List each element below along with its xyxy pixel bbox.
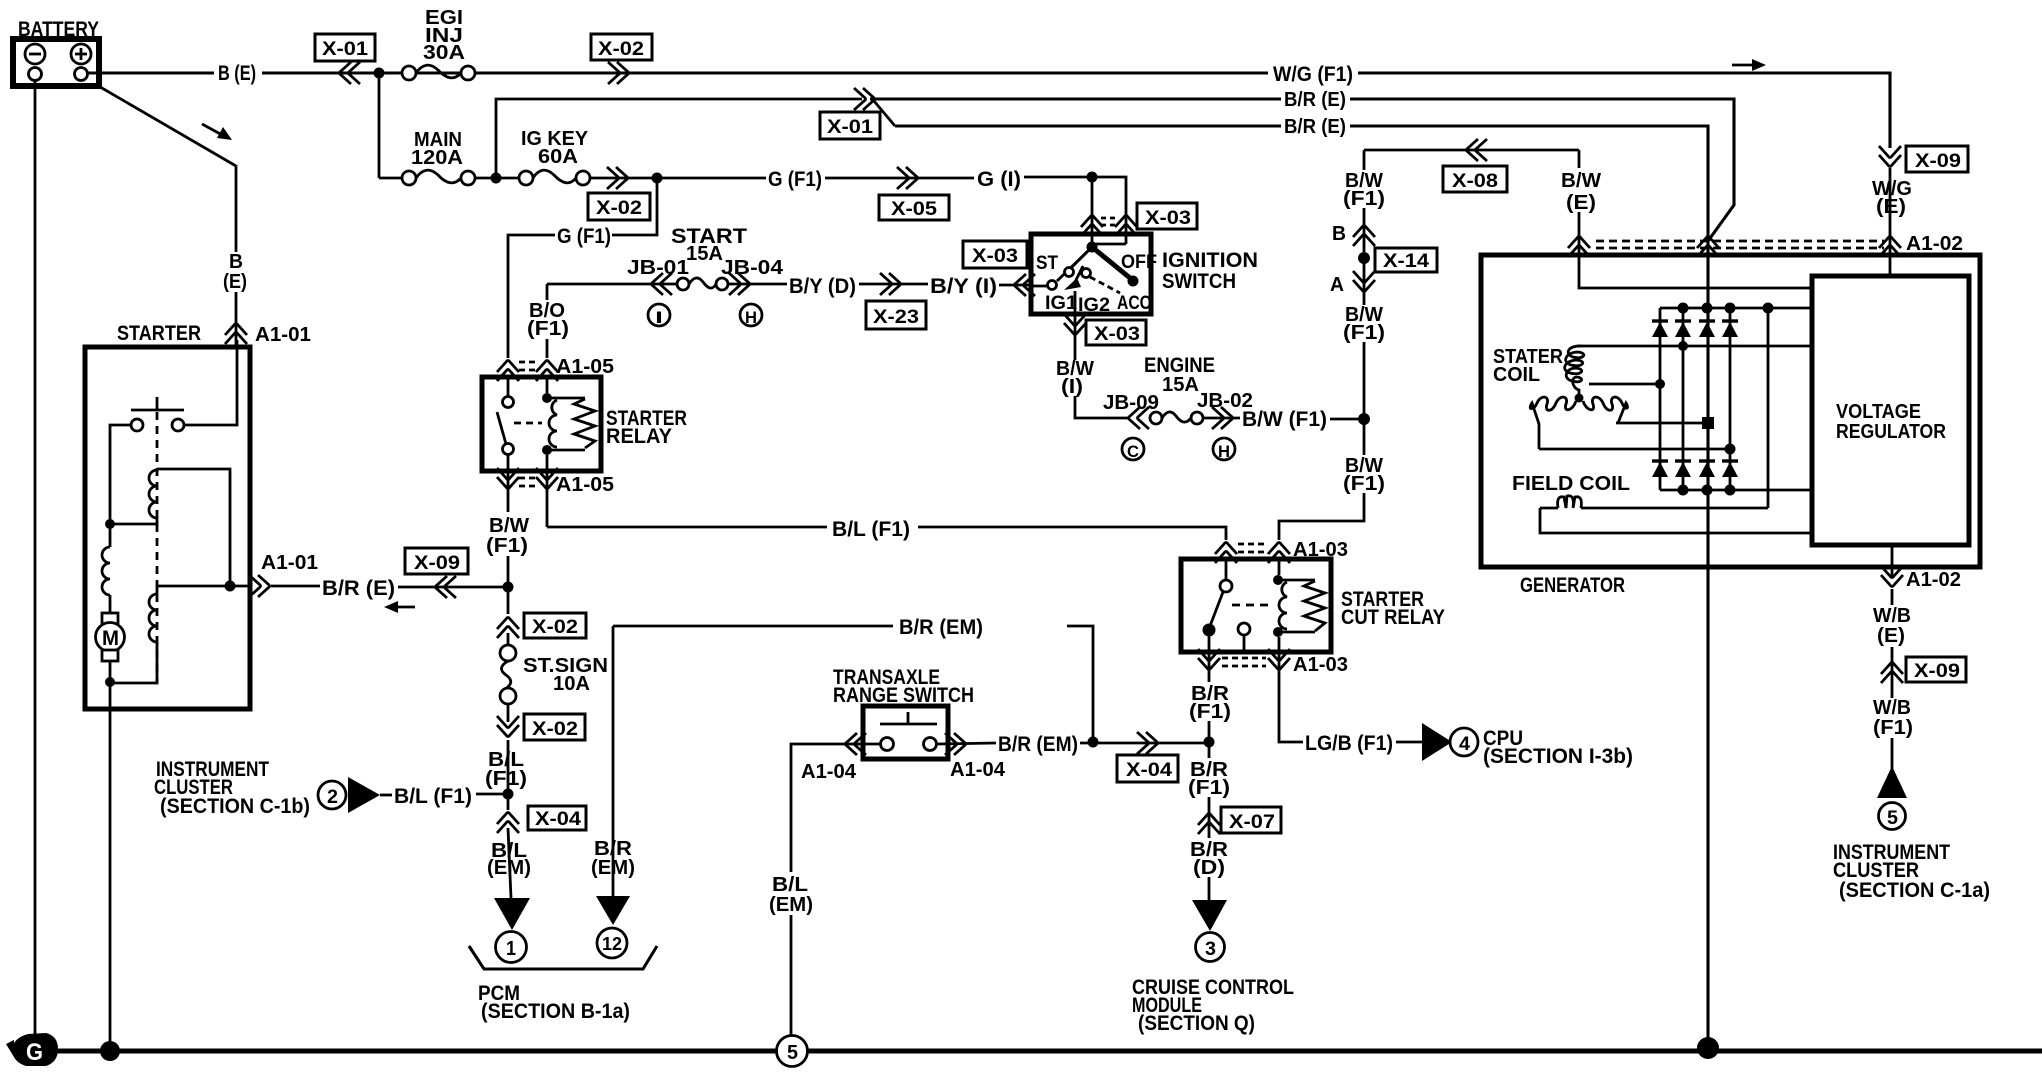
fuse ST.SIGN 10A — [500, 633, 608, 722]
svg-text:B/R (E): B/R (E) — [322, 577, 395, 600]
svg-text:G (F1): G (F1) — [557, 225, 611, 248]
svg-text:B (E): B (E) — [218, 62, 256, 85]
wire B/Y(D) to X-23 — [859, 283, 928, 286]
svg-text:B/L: B/L — [772, 874, 808, 896]
wire battery negative to ground — [34, 81, 37, 1037]
diode D6 — [1675, 461, 1691, 477]
starter cut relay coil — [1273, 559, 1325, 652]
wire transaxle left leg — [791, 744, 880, 872]
label W/B (F1) — [1873, 697, 1913, 739]
svg-text:X-01: X-01 — [322, 39, 368, 60]
wire field coil return to regulator — [1540, 508, 1811, 533]
arrow right over W/G wire — [1732, 59, 1766, 71]
series field coil — [102, 524, 110, 613]
connector X-03 label box left — [963, 241, 1027, 268]
label STARTER CUT RELAY — [1341, 588, 1445, 629]
node on bridge column 3 — [1702, 417, 1714, 429]
connector A1-02 chevron left — [1568, 237, 1590, 258]
svg-text:REGULATOR: REGULATOR — [1836, 421, 1946, 443]
connector X-09 chevron right mid — [1881, 663, 1903, 684]
wire B(E) to X-01 — [262, 71, 1268, 74]
starter cut relay switch — [1203, 559, 1233, 652]
svg-text:4: 4 — [1459, 734, 1470, 755]
svg-text:(SECTION C-1a): (SECTION C-1a) — [1839, 879, 1990, 902]
connector X-03 label box bottom — [1086, 320, 1146, 345]
svg-text:B: B — [229, 251, 243, 273]
wire B/R(E) line1 from X-01 — [870, 97, 1281, 100]
svg-text:X-02: X-02 — [532, 719, 578, 740]
label B/W (I) — [1056, 358, 1094, 398]
wire relay pins to box edges — [507, 377, 510, 397]
wire stator left phase to column 4 — [1539, 448, 1730, 451]
ignition switch SW1 box — [1031, 234, 1151, 314]
connector A1-01 output chevron — [249, 575, 270, 597]
wire B/R(E) line2 — [895, 124, 1281, 127]
connector X-09 label box right mid — [1906, 657, 1966, 682]
stator Y junction — [1575, 394, 1584, 403]
node: G(F1) branch junction — [652, 173, 663, 184]
node: motor ground junction — [105, 677, 115, 687]
svg-text:CUT RELAY: CUT RELAY — [1341, 606, 1445, 629]
arrow on battery diagonal — [202, 124, 232, 140]
connector X-02 label box — [591, 34, 652, 60]
svg-text:(F1): (F1) — [1188, 777, 1230, 799]
svg-text:A1-01: A1-01 — [261, 552, 318, 574]
label INSTRUMENT CLUSTER (SECTION C-1a) — [1833, 841, 1990, 902]
wire fuse to label — [1203, 417, 1240, 420]
svg-text:(E): (E) — [1566, 192, 1596, 214]
svg-text:(F1): (F1) — [1343, 322, 1385, 344]
svg-text:(SECTION Q): (SECTION Q) — [1138, 1012, 1255, 1035]
svg-text:B/R (E): B/R (E) — [1284, 116, 1346, 138]
label STATER COIL — [1493, 346, 1564, 386]
connector X-02 chevron on B(E) line — [608, 62, 629, 84]
node: battery feed junction — [374, 68, 385, 79]
svg-text:RELAY: RELAY — [606, 425, 672, 448]
connector X-09 label box — [405, 548, 468, 574]
connector A1-02 chevron bottom — [1881, 566, 1903, 587]
connector JB-04 chevron — [729, 273, 750, 295]
connector X-03 chevron below switch — [1064, 314, 1086, 335]
wire W/G(E) to A1-02 — [1889, 168, 1892, 276]
connector X-02 chevron above ST.SIGN — [497, 618, 519, 639]
voltage regulator U1 box — [1812, 276, 1969, 545]
junction circle C — [1122, 438, 1144, 461]
wire B/W(F1) down to starter cut relay — [1279, 493, 1364, 540]
starter relay K1 box — [482, 377, 601, 471]
wire LG/B to CPU arrow — [1396, 741, 1422, 744]
svg-text:10A: 10A — [553, 673, 590, 695]
svg-text:X-07: X-07 — [1229, 812, 1275, 833]
connector A1-02 chevron right — [1879, 237, 1901, 258]
connector X-08 label box — [1443, 166, 1507, 192]
wire W/G(F1) to right edge — [1358, 73, 1890, 148]
connector X-23 chevron — [880, 273, 901, 295]
svg-text:X-01: X-01 — [827, 117, 873, 138]
svg-text:W/G (F1): W/G (F1) — [1273, 63, 1353, 86]
wire G(I) to ignition switch — [1024, 176, 1092, 179]
diode D4 — [1722, 321, 1738, 337]
svg-text:(EM): (EM) — [591, 857, 635, 879]
svg-text:A1-01: A1-01 — [255, 324, 311, 346]
svg-text:IGNITION: IGNITION — [1162, 249, 1258, 272]
connector X-02 label box — [524, 613, 586, 638]
svg-text:B: B — [1332, 223, 1346, 245]
connector X-01 label box lower — [820, 112, 880, 139]
svg-text:X-05: X-05 — [891, 199, 937, 220]
connector X-03 upper chevrons with dashes — [1081, 177, 1137, 247]
diode D3 — [1699, 321, 1715, 337]
top bus junction dots — [1678, 303, 1774, 314]
label B/W (F1) mid — [1343, 304, 1385, 344]
connector X-09 chevron top right — [1879, 146, 1901, 167]
diode D1 — [1652, 321, 1668, 337]
svg-text:60A: 60A — [538, 146, 578, 168]
connector JB-09 chevron — [1129, 407, 1150, 429]
junction circle 5 on ground bus — [777, 1036, 808, 1067]
wire B/W(E) drop — [1578, 150, 1581, 168]
wire B/L(F1) to starter cut relay — [918, 527, 1226, 540]
fuse ENGINE 15A — [1103, 354, 1253, 424]
wire G(F1) branch left — [508, 235, 555, 358]
rectifier top bus — [1660, 307, 1811, 310]
junction circle I — [648, 304, 670, 327]
starter cut relay spare contact — [1238, 623, 1250, 652]
wire B/R(E) to X-09 — [398, 586, 508, 589]
connector X-03 label box top — [1137, 203, 1197, 229]
wire to B chevron — [1363, 208, 1366, 252]
connector A1-03 lower chevrons with dashes — [1198, 649, 1290, 682]
diode D8 — [1722, 461, 1738, 477]
svg-text:X-03: X-03 — [1094, 324, 1140, 345]
node: ignition feed junction — [1087, 172, 1098, 183]
wire to B/L(F1) label — [380, 794, 392, 797]
wire B/L(F1) to junction — [507, 740, 510, 810]
label W/B (E) — [1873, 605, 1911, 647]
label B/L (F1) vertical — [485, 749, 527, 790]
connector A1-02 chevron mid — [1697, 237, 1719, 258]
node: starter ground junction — [100, 1041, 120, 1061]
field coil winding — [1540, 496, 1768, 508]
starter solenoid contact bar — [131, 397, 184, 410]
svg-text:15A: 15A — [1162, 374, 1199, 396]
pin 3 circled — [1196, 933, 1225, 962]
svg-text:FIELD COIL: FIELD COIL — [1512, 473, 1630, 495]
svg-text:GENERATOR: GENERATOR — [1520, 574, 1625, 597]
connector X-04 chevron right — [1137, 732, 1158, 754]
arrow into PCM pin 1 — [494, 898, 530, 930]
svg-text:ST: ST — [1036, 253, 1058, 274]
rectifier column 1 — [1659, 308, 1662, 490]
starter output wire A1-01 — [157, 585, 250, 588]
svg-text:B/Y (D): B/Y (D) — [789, 275, 856, 298]
node: coil to motor junction — [105, 519, 115, 529]
svg-text:C: C — [1127, 442, 1139, 461]
node: generator ground junction — [1697, 1037, 1719, 1059]
wire contact to A1-01 — [184, 347, 237, 425]
svg-text:G: G — [26, 1039, 43, 1066]
pin 12 circled — [597, 928, 627, 958]
connector JB-01 chevron — [652, 273, 673, 295]
svg-text:(D): (D) — [1193, 857, 1225, 879]
svg-text:(E): (E) — [223, 271, 247, 293]
svg-text:A1-04: A1-04 — [950, 759, 1006, 781]
connector A chevron down — [1353, 271, 1375, 292]
stator right phase winding — [1583, 397, 1627, 423]
node X-14 — [1358, 252, 1370, 264]
svg-text:(I): (I) — [1061, 376, 1083, 398]
svg-text:12: 12 — [602, 934, 622, 954]
label TRANSAXLE RANGE SWITCH — [833, 666, 974, 707]
wire coil bottom to node — [110, 523, 157, 526]
svg-text:W/B: W/B — [1873, 605, 1911, 627]
wire fuse to B/Y(D) — [728, 283, 787, 286]
svg-text:VOLTAGE: VOLTAGE — [1836, 401, 1921, 423]
label B/L (EM) transaxle — [769, 874, 813, 916]
svg-text:(E): (E) — [1877, 625, 1905, 647]
arrow into PCM pin 12 — [596, 896, 630, 925]
svg-text:(F1): (F1) — [1189, 701, 1231, 723]
connector X-02 chevron below ST.SIGN — [497, 716, 519, 737]
label STARTER RELAY — [606, 407, 687, 448]
wire B/L(EM) down to junction 5 — [790, 915, 793, 1036]
wire START fuse feed stub — [546, 284, 549, 300]
svg-text:I: I — [655, 308, 663, 327]
svg-text:LG/B (F1): LG/B (F1) — [1305, 732, 1393, 755]
label PCM (SECTION B-1a) — [478, 982, 630, 1023]
battery B1 — [13, 18, 99, 86]
fuse MAIN 120A — [402, 129, 475, 185]
wire B/R(E) from starter — [271, 585, 320, 588]
wire B/W(E) into generator — [1579, 212, 1811, 288]
svg-text:5: 5 — [1887, 808, 1898, 829]
arrow from instrument cluster — [348, 777, 380, 813]
svg-text:OFF: OFF — [1121, 252, 1157, 273]
starter relay dashed link — [514, 422, 542, 425]
label CRUISE CONTROL MODULE (SECTION Q) — [1132, 976, 1294, 1035]
label B/O (F1) — [527, 300, 569, 340]
label B (E) vertical — [223, 251, 247, 293]
svg-text:3: 3 — [1205, 939, 1216, 960]
wire stator top phase to bridge — [1578, 345, 1811, 348]
connector A1-04 right chevron — [945, 733, 966, 755]
node: junction to B/R(E) riser — [491, 173, 502, 184]
connector A1-05 lower chevrons with dashes — [497, 468, 558, 527]
wire B/R(E) line1 right — [1350, 99, 1734, 241]
field supply column — [1767, 308, 1770, 508]
connector X-09 label box top right — [1906, 146, 1968, 172]
connector X-08 chevron — [1467, 139, 1488, 161]
svg-text:SWITCH: SWITCH — [1162, 270, 1236, 293]
svg-text:A1-02: A1-02 — [1906, 233, 1963, 255]
connector X-01 chevron on line1 — [854, 88, 875, 110]
svg-text:(F1): (F1) — [485, 768, 527, 790]
wire B/R(E) line2 right and long drop — [1350, 126, 1708, 1048]
ground bus — [44, 1049, 2042, 1054]
svg-text:A1-03: A1-03 — [1293, 654, 1348, 676]
node on bridge column 4 — [1725, 444, 1736, 455]
svg-text:(SECTION C-1b): (SECTION C-1b) — [160, 795, 310, 818]
wire B/R(EM) down to PCM pin 12 — [612, 626, 615, 896]
connector X-23 label box — [866, 301, 926, 329]
wire G(F1) row — [590, 177, 766, 180]
transaxle switch contacts — [880, 712, 937, 751]
diode D5 — [1652, 461, 1668, 477]
svg-text:30A: 30A — [423, 42, 465, 64]
svg-text:X-14: X-14 — [1383, 251, 1429, 272]
svg-text:(F1): (F1) — [1343, 188, 1385, 210]
svg-text:G (I): G (I) — [977, 168, 1021, 191]
wire W/B(F1) to cluster arrow — [1891, 681, 1894, 698]
label B/R (F1) upper — [1189, 683, 1231, 723]
svg-text:(F1): (F1) — [527, 318, 569, 340]
connector X-02 label box lower — [524, 714, 585, 740]
svg-text:B/L (F1): B/L (F1) — [394, 785, 472, 808]
pull-in coil — [149, 469, 230, 586]
circled 2 — [318, 781, 346, 809]
wire starter motor to ground bus — [109, 683, 112, 1051]
svg-text:X-08: X-08 — [1452, 171, 1498, 192]
wire B(E) from battery + terminal — [87, 71, 214, 74]
label B/R (F1) lower — [1188, 759, 1230, 799]
svg-text:(SECTION I-3b): (SECTION I-3b) — [1483, 745, 1633, 768]
svg-text:A1-04: A1-04 — [801, 761, 857, 783]
arrow into instrument cluster pin 5 — [1877, 766, 1907, 798]
node: B/R(F1) junction — [1204, 737, 1215, 748]
svg-text:G (F1): G (F1) — [768, 168, 822, 191]
label B/W (F1) — [486, 515, 529, 557]
ignition switch IG1 contact — [1064, 247, 1092, 290]
ignition switch common node — [1087, 242, 1127, 253]
wire label to node — [476, 793, 508, 796]
ignition switch wiper to OFF — [1092, 247, 1139, 287]
connector A1-01 chevron — [225, 324, 247, 345]
starter contact terminals — [131, 419, 143, 431]
svg-text:X-02: X-02 — [532, 617, 578, 638]
svg-text:X-04: X-04 — [535, 809, 581, 830]
svg-text:M: M — [102, 627, 119, 650]
node: transaxle output junction — [1088, 737, 1099, 748]
wire stator right phase to column 3 — [1616, 422, 1708, 425]
connector X-02 label box — [588, 193, 650, 220]
svg-text:JB-09: JB-09 — [1103, 392, 1159, 414]
node: B/L(F1) cluster junction — [503, 789, 514, 800]
label INSTRUMENT CLUSTER (SECTION C-1b) — [154, 758, 310, 818]
pin 5 circled — [1879, 803, 1906, 830]
connector X-05 label box — [879, 195, 949, 220]
svg-text:STARTER: STARTER — [117, 322, 201, 345]
svg-text:A: A — [1330, 274, 1344, 296]
svg-text:IG2: IG2 — [1078, 295, 1110, 316]
starter cut relay K2 box — [1181, 559, 1331, 652]
wire B(E) down to starter — [235, 165, 238, 252]
svg-text:X-03: X-03 — [972, 246, 1018, 267]
connector X-04 label box — [528, 806, 586, 830]
wire W/B(E) — [1891, 589, 1894, 605]
svg-text:X-09: X-09 — [1914, 661, 1960, 682]
diagonal from battery to starter feed — [95, 84, 236, 166]
ground symbol G — [6, 1033, 58, 1066]
svg-text:IG1: IG1 — [1045, 293, 1077, 314]
svg-text:(EM): (EM) — [769, 894, 813, 916]
junction circle H2 — [1213, 438, 1235, 461]
wire B/R(EM) to corner — [1067, 626, 1093, 742]
connector X-01 chevron — [340, 62, 361, 84]
connector X-04 chevron — [497, 813, 519, 834]
wire label to node — [1330, 418, 1364, 421]
node on bridge column 2 — [1678, 341, 1688, 351]
rectifier column 2 — [1682, 308, 1685, 490]
label B/R (EM) at pin 12 — [591, 838, 635, 879]
svg-text:A1-05: A1-05 — [556, 474, 614, 496]
svg-text:A1-02: A1-02 — [1906, 569, 1961, 591]
arrow into CPU — [1422, 723, 1452, 761]
starter cut relay dashed link — [1232, 604, 1270, 607]
svg-text:H: H — [1218, 442, 1230, 461]
connector ignition ST chevron — [1015, 274, 1036, 296]
diode D2 — [1675, 321, 1691, 337]
arrow left under B/R(E) — [384, 601, 415, 613]
ignition switch ST contact — [1033, 247, 1092, 290]
label B/L (EM) — [487, 840, 531, 879]
pin 1 circled — [496, 932, 527, 963]
wire B/O(F1) down to relay — [546, 339, 549, 358]
svg-text:B/R (EM): B/R (EM) — [899, 616, 983, 639]
wire G(F1) branch down to relay — [612, 178, 657, 235]
svg-text:B/Y (I): B/Y (I) — [930, 275, 997, 298]
wire to engine-fuse node — [1363, 342, 1366, 455]
svg-text:ACC: ACC — [1117, 293, 1151, 314]
wire riser to B/R(E) line1 — [496, 99, 862, 178]
svg-text:X-09: X-09 — [414, 553, 460, 574]
connector X-09 chevron — [436, 576, 457, 598]
plunger dashed link — [156, 412, 159, 682]
connector X-14 label box — [1375, 248, 1437, 272]
transaxle range switch S1 box — [863, 706, 948, 759]
PCM bracket — [469, 946, 657, 969]
wire G(F1) to X-05 — [825, 177, 974, 180]
label B/W (F1) lower — [1343, 455, 1385, 495]
rectifier bottom bus — [1660, 489, 1811, 492]
connector X-07 chevron — [1198, 814, 1220, 835]
starter relay coil — [542, 393, 595, 455]
wire to A1-01 connector — [235, 292, 238, 347]
svg-text:COIL: COIL — [1493, 364, 1540, 386]
starter motor M — [96, 613, 125, 682]
wire below X-14 — [1363, 258, 1366, 305]
svg-text:X-09: X-09 — [1915, 151, 1961, 172]
junction circle H — [740, 304, 762, 327]
wire B/R(F1) to node — [1208, 721, 1211, 758]
svg-text:B/L (F1): B/L (F1) — [832, 518, 910, 541]
svg-text:X-02: X-02 — [598, 39, 644, 60]
label IGNITION SWITCH — [1162, 249, 1258, 293]
svg-text:H: H — [745, 308, 757, 327]
node on bridge column 1 — [1655, 379, 1665, 389]
starter M1 box — [85, 347, 250, 709]
connector A1-03 upper chevrons with dashes — [1215, 543, 1290, 564]
diode D7 — [1699, 461, 1715, 477]
svg-text:X-04: X-04 — [1126, 760, 1172, 781]
stator left phase winding — [1530, 397, 1576, 449]
svg-text:B/R (E): B/R (E) — [1284, 89, 1346, 111]
rectifier column 4 — [1729, 308, 1732, 490]
node: main fuse feed — [378, 73, 381, 178]
label B/R (D) — [1190, 839, 1229, 879]
svg-text:X-02: X-02 — [596, 198, 642, 219]
label B/W (F1) right top — [1343, 170, 1385, 210]
wire contact left leg — [110, 425, 131, 524]
